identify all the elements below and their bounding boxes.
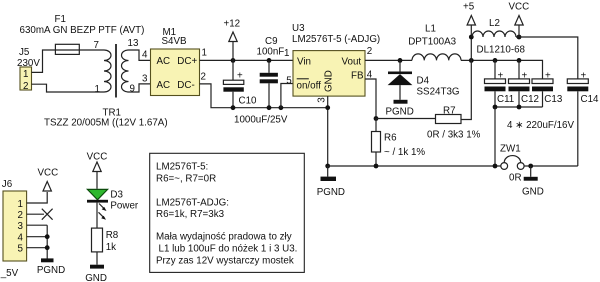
svg-text:100nF: 100nF: [257, 47, 285, 58]
label +12: [224, 19, 241, 30]
label M1 DC-: [177, 80, 194, 91]
svg-text:DPT100A3: DPT100A3: [408, 36, 456, 47]
label D4: [417, 76, 430, 87]
label TR1 pin9: [130, 84, 135, 95]
wire J6 pin1 to VCC: [27, 192, 48, 203]
label PGND at D4: [386, 107, 414, 118]
capacitor C14: [567, 79, 588, 166]
capacitor C11: [485, 60, 506, 107]
svg-text:S4VB: S4VB: [162, 36, 188, 47]
label M1 DC+: [177, 56, 197, 67]
label U3 pin1: [284, 48, 289, 59]
svg-text:AC: AC: [157, 56, 171, 67]
node junction FB divider: [374, 116, 379, 121]
info box: [150, 153, 305, 272]
label C9: [265, 36, 278, 47]
svg-text:C11: C11: [497, 94, 514, 105]
no-connect X on J6 pin2: [42, 209, 53, 220]
label L2: [489, 18, 500, 29]
label R7: [443, 106, 456, 117]
label R6 value: [384, 147, 425, 158]
svg-text:GND: GND: [522, 187, 544, 198]
svg-text:D4: D4: [417, 76, 430, 87]
wire U3 pin3 GND down to PGND rail: [327, 96, 329, 166]
svg-text:4 ∗ 220uF/16V: 4 ∗ 220uF/16V: [507, 120, 574, 131]
label J6 pin2: [18, 210, 23, 221]
label PGND at J6: [37, 265, 65, 276]
node junction C12 bottom: [517, 105, 522, 110]
svg-text:Przy zas 12V wystarczy mostek: Przy zas 12V wystarczy mostek: [156, 256, 294, 267]
svg-text:+: +: [522, 71, 528, 82]
label 1000uF/25V: [234, 115, 288, 126]
label C14: [581, 94, 600, 105]
power symbol VCC at D3: [93, 162, 101, 189]
fuse F1: [55, 44, 79, 54]
power symbol +12: [229, 32, 237, 60]
note text line4: [156, 209, 225, 220]
label C13 plus: [545, 71, 551, 82]
label FB: [351, 71, 364, 82]
label VCC top: [509, 2, 530, 13]
diode D4: [388, 60, 413, 99]
label C12 plus: [522, 71, 528, 82]
svg-text:2: 2: [18, 210, 23, 221]
node junction C9 bottom: [267, 105, 272, 110]
svg-text:_5V: _5V: [0, 268, 19, 279]
svg-text:3: 3: [18, 221, 24, 232]
label _5V: [0, 268, 19, 279]
ground PGND under D4: [394, 100, 408, 104]
capacitor C9: [260, 60, 278, 107]
label M1 AC bottom: [157, 80, 171, 91]
label TR1 pin1: [95, 84, 100, 95]
transformer TR1 primary winding: [104, 50, 111, 92]
regulator U3: [293, 51, 365, 97]
ground GND at R8: [90, 265, 104, 269]
svg-text:R8: R8: [106, 230, 119, 241]
label R6: [384, 133, 397, 144]
label L1: [425, 24, 436, 35]
label GND right: [522, 187, 544, 198]
label GND rotated: [324, 70, 335, 92]
svg-text:LM2576T-ADJG:: LM2576T-ADJG:: [156, 198, 229, 209]
label VCC at J6: [38, 168, 59, 179]
note text line3: [156, 198, 229, 209]
svg-text:on/off: on/off: [297, 81, 322, 92]
svg-text:PGND: PGND: [317, 187, 345, 198]
label PGND mid: [317, 187, 345, 198]
label DPT100A3: [408, 36, 456, 47]
capacitor C12: [509, 60, 530, 107]
wire R7 right lead up to +5 node: [461, 37, 471, 120]
wire caps rail down to PGND rail: [494, 107, 496, 166]
svg-text:3: 3: [316, 97, 327, 103]
label M1 pin3: [142, 74, 148, 85]
svg-text:J5: J5: [19, 47, 30, 58]
label 100nF: [257, 47, 285, 58]
label on/off with overline: [297, 79, 322, 92]
resistor R6: [372, 119, 381, 167]
label caps value: [507, 120, 574, 131]
node junction +5 vertical: [469, 58, 474, 63]
label C10: [239, 96, 258, 107]
svg-text:Vout: Vout: [342, 57, 362, 68]
wire L1 to C13 corner (+5 rail): [461, 60, 543, 79]
label J6 pin1: [18, 199, 23, 210]
wire J6 ground vertical: [46, 225, 48, 258]
label +5: [463, 2, 475, 13]
svg-text:Power: Power: [110, 201, 139, 212]
resistor R7: [436, 115, 462, 124]
svg-text:LM2576T-5 (-ADJG): LM2576T-5 (-ADJG): [292, 34, 380, 45]
svg-text:ZW1: ZW1: [500, 144, 521, 155]
node junction +12/C10: [231, 58, 236, 63]
label ZW1: [500, 144, 521, 155]
label C10 plus: [237, 71, 243, 82]
label U3 pin2: [367, 46, 372, 57]
svg-text:PGND: PGND: [37, 265, 65, 276]
svg-text:FB: FB: [351, 71, 364, 82]
node junction L2 right VCC: [517, 35, 522, 40]
node junction J6 pin5: [45, 245, 50, 250]
svg-text:DC+: DC+: [177, 56, 197, 67]
svg-text:C10: C10: [239, 96, 258, 107]
label R8: [106, 230, 119, 241]
label U3: [292, 23, 305, 34]
wire capacitor bottom rail C11-C13: [495, 106, 543, 108]
label Vout: [342, 57, 362, 68]
note text line5: [156, 232, 292, 243]
svg-text:L1 lub 100uF do nóżek 1 i 3 U3: L1 lub 100uF do nóżek 1 i 3 U3.: [159, 244, 298, 255]
svg-text:+: +: [237, 71, 243, 82]
wire J5 pin2 to TR1 primary: [32, 84, 105, 92]
label J5 pin2: [23, 81, 28, 92]
svg-text:2: 2: [23, 81, 28, 92]
svg-text:7: 7: [94, 40, 99, 51]
wire U3 FB to divider node: [365, 79, 376, 119]
label J6: [2, 179, 13, 190]
svg-text:C14: C14: [581, 94, 600, 105]
label R8 value 1k: [106, 242, 116, 253]
svg-text:3: 3: [142, 74, 148, 85]
label M1 pin1: [202, 48, 207, 59]
svg-text:4: 4: [18, 233, 24, 244]
svg-text:VCC: VCC: [87, 152, 108, 163]
label M1 pin4: [142, 50, 148, 61]
svg-text:LM2576T-5:: LM2576T-5:: [156, 162, 208, 173]
inductor L1: [412, 54, 461, 61]
ground PGND mid symbol: [321, 166, 337, 181]
label C11 plus: [498, 71, 504, 82]
svg-text:Mała wydajność pradowa to zły: Mała wydajność pradowa to zły: [156, 232, 292, 243]
node junction on/off pin5: [279, 105, 284, 110]
svg-text:1k: 1k: [106, 242, 116, 253]
note text line1: [156, 162, 208, 173]
wire J6 pin5: [27, 247, 48, 249]
label C14 plus: [581, 71, 587, 82]
label TR1: [103, 108, 122, 119]
label Vin: [297, 57, 311, 68]
svg-text:0R: 0R: [509, 173, 522, 184]
label TR1 pin7: [94, 40, 99, 51]
LED D3: [87, 189, 108, 202]
svg-text:230V: 230V: [17, 58, 40, 69]
label F1: [55, 14, 66, 25]
label S4VB: [162, 36, 188, 47]
transformer TR1 core: [115, 44, 117, 98]
svg-text:1: 1: [95, 84, 100, 95]
wire U3 Vout to L1: [365, 59, 412, 61]
svg-text:+5: +5: [463, 2, 475, 13]
wire J5 pin1 to fuse: [32, 50, 56, 72]
node junction C11 top: [493, 58, 498, 63]
label DL1210-68: [477, 45, 526, 56]
svg-text:C12: C12: [521, 94, 539, 105]
label VCC at D3: [87, 152, 108, 163]
label U3 type: [292, 34, 380, 45]
note text line7: [156, 256, 294, 267]
label C11: [497, 94, 514, 105]
label J6 pin4: [18, 233, 24, 244]
svg-text:R7: R7: [443, 106, 456, 117]
svg-text:630mA GN BEZP PTF (AVT): 630mA GN BEZP PTF (AVT): [20, 25, 145, 36]
label D3: [110, 190, 123, 201]
power symbol VCC top: [515, 16, 523, 38]
label C13: [544, 94, 563, 105]
capacitor C10: [223, 60, 243, 107]
wire DC+ rail M1 to U3 Vin: [200, 59, 294, 61]
node junction GND: [528, 164, 533, 169]
svg-text:GND: GND: [324, 70, 335, 92]
wire R8 to GND: [96, 252, 98, 265]
note text line2: [156, 174, 216, 185]
node junction C10 bottom: [231, 105, 236, 110]
svg-text:DC-: DC-: [177, 80, 194, 91]
svg-text:5: 5: [18, 244, 24, 255]
svg-text:TSZZ 20/005M ((12V 1.67A): TSZZ 20/005M ((12V 1.67A): [44, 118, 168, 129]
svg-text:R6=1k, R7=3k3: R6=1k, R7=3k3: [156, 209, 225, 220]
resistor R8: [92, 228, 103, 252]
svg-text:4: 4: [367, 70, 373, 81]
svg-text:+: +: [545, 71, 551, 82]
wire TR1 pin13 to M1 pin4: [129, 50, 151, 60]
label J6 pin5: [18, 244, 24, 255]
svg-text:+12: +12: [224, 19, 241, 30]
svg-text:2: 2: [201, 72, 206, 83]
label TR1 pin13: [128, 38, 139, 49]
wire VCC node to C14: [516, 37, 578, 79]
svg-text:+: +: [581, 71, 587, 82]
node junction L2 left: [469, 35, 474, 40]
connector J5: [20, 67, 32, 90]
svg-text:1: 1: [202, 48, 207, 59]
svg-text:9: 9: [130, 84, 135, 95]
label ZW1 value 0R: [509, 173, 522, 184]
svg-text:GND: GND: [85, 273, 107, 282]
label R7 value: [427, 130, 481, 141]
node junction D4 cathode: [398, 58, 403, 63]
label J6 pin3: [18, 221, 24, 232]
svg-text:1: 1: [284, 48, 289, 59]
node junction caps/PGND: [493, 164, 498, 169]
transformer TR1 secondary winding: [122, 50, 129, 92]
svg-text:SS24T3G: SS24T3G: [417, 86, 460, 97]
svg-text:13: 13: [128, 38, 139, 49]
svg-text:PGND: PGND: [386, 107, 414, 118]
wire J6 pin2: [27, 213, 44, 215]
node junction R6 bottom: [374, 164, 379, 169]
svg-text:VCC: VCC: [509, 2, 530, 13]
svg-text:R6: R6: [384, 133, 397, 144]
svg-text:DL1210-68: DL1210-68: [477, 45, 526, 56]
svg-text:0R / 3k3 1%: 0R / 3k3 1%: [427, 130, 481, 141]
label GND at R8: [85, 273, 107, 282]
wire ZW1 to C14 bottom: [524, 165, 578, 167]
capacitor C13: [532, 79, 553, 107]
svg-text:~ / 1k 1%: ~ / 1k 1%: [384, 147, 425, 158]
inductor L2: [472, 31, 516, 37]
svg-text:U3: U3: [292, 23, 305, 34]
wire PGND rail: [328, 165, 501, 167]
wire fuse to TR1 primary: [79, 49, 104, 51]
svg-text:2: 2: [367, 46, 372, 57]
LED D3 emission arrows: [99, 204, 107, 220]
svg-text:L2: L2: [489, 18, 500, 29]
jumper ZW1: [501, 156, 524, 170]
svg-text:1000uF/25V: 1000uF/25V: [234, 115, 288, 126]
svg-text:F1: F1: [55, 14, 66, 25]
svg-text:4: 4: [142, 50, 148, 61]
label fuse value: [20, 25, 145, 36]
label U3 pin4: [367, 70, 373, 81]
power symbol VCC at J6: [43, 182, 51, 192]
svg-text:5: 5: [286, 76, 292, 87]
wire J6 pin4: [27, 236, 48, 238]
label Power: [110, 201, 139, 212]
wire J6 pin3: [27, 224, 48, 226]
label 230V: [17, 58, 40, 69]
wire D3 to R8: [96, 203, 98, 229]
svg-text:Vin: Vin: [297, 57, 311, 68]
label M1: [163, 27, 177, 38]
label M1 pin2: [201, 72, 206, 83]
node junction C9 top: [267, 58, 272, 63]
label U3 pin3 rotated: [316, 97, 327, 103]
svg-text:AC: AC: [157, 80, 171, 91]
svg-text:+: +: [498, 71, 504, 82]
svg-text:VCC: VCC: [38, 168, 59, 179]
label J5: [19, 47, 30, 58]
wire M1 DC- to ground rail: [200, 84, 328, 108]
svg-text:L1: L1: [425, 24, 436, 35]
bridge rectifier M1: [151, 49, 200, 96]
svg-text:C13: C13: [544, 94, 563, 105]
node junction pin3 ground rail: [325, 105, 330, 110]
svg-text:R6=~, R7=0R: R6=~, R7=0R: [156, 174, 216, 185]
label U3 pin5: [286, 76, 292, 87]
node junction PGND rail left end: [325, 164, 330, 169]
ground PGND at J6: [41, 258, 54, 262]
connector J6: [3, 191, 27, 261]
svg-text:J6: J6: [2, 179, 13, 190]
node junction C11 bottom: [493, 105, 498, 110]
power symbol +5: [467, 16, 475, 38]
note text line6: [159, 244, 298, 255]
svg-text:1: 1: [18, 199, 23, 210]
node junction J6 pin4: [45, 234, 50, 239]
node junction C12 top: [517, 58, 522, 63]
label J5 pin1: [23, 69, 28, 80]
svg-text:1: 1: [23, 69, 28, 80]
wire U3 pin5 on/off down to ground rail: [281, 84, 293, 108]
svg-text:C9: C9: [265, 36, 278, 47]
svg-text:D3: D3: [110, 190, 123, 201]
wire TR1 pin9 to M1 pin3: [129, 84, 151, 92]
label C12: [521, 94, 539, 105]
wire divider node to R7: [376, 118, 436, 120]
label M1 AC top: [157, 56, 171, 67]
label TR1 type: [44, 118, 168, 129]
label SS24T3G: [417, 86, 460, 97]
ground GND symbol right: [524, 166, 538, 181]
